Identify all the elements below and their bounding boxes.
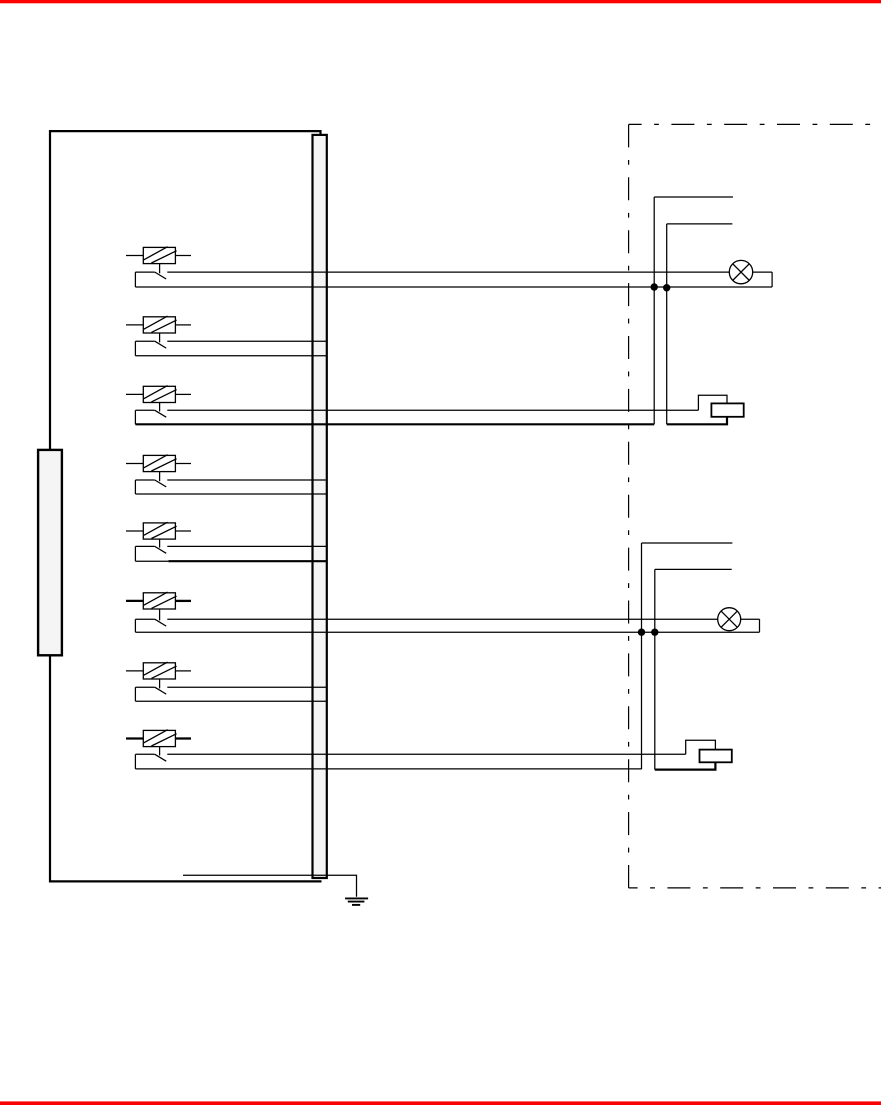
group2 supply stub lower [655, 568, 732, 570]
Q7 actuator link [159, 679, 161, 688]
wire Q1 return (lower) [135, 286, 772, 288]
output driver Q2 right lead [175, 324, 191, 326]
wire solenoid K1 feed (staircase) [698, 395, 727, 410]
backplane bus connector [313, 135, 327, 878]
output driver Q4 right lead [175, 463, 191, 465]
Q1 contact feed drop [134, 272, 136, 287]
output driver Q7 left lead [126, 670, 143, 672]
output driver Q5 (hatched box) [143, 523, 175, 539]
lamp load E2 [718, 608, 741, 631]
wire Q7 output (upper) [167, 686, 326, 688]
wire Q8 return (lower) [135, 768, 641, 770]
output driver Q5 right lead [175, 530, 191, 532]
wire Q3 return (lower, bold) [135, 423, 654, 425]
load enclosure dash-dot border bottom [629, 887, 881, 889]
digital output module enclosure [50, 131, 322, 881]
wire solenoid K2 return [655, 762, 716, 769]
wire Q7 return (lower) [135, 700, 326, 702]
wire Q1 output (upper) [167, 271, 729, 273]
output driver Q8 right lead [175, 737, 191, 739]
load enclosure dash-dot border top [629, 123, 881, 125]
wire solenoid K1 return [667, 417, 727, 425]
Q7 output contact [135, 686, 154, 688]
red footer rule [0, 1101, 881, 1105]
Q6 contact feed drop [134, 619, 136, 632]
Q2 output contact [135, 340, 154, 342]
Q5 output contact [135, 545, 154, 547]
wire Q5 output (upper) [167, 545, 326, 547]
Q6 output contact [135, 618, 154, 620]
wire lamp E2 return loop [741, 618, 760, 620]
ground wire [183, 875, 357, 897]
output driver Q3 (hatched box) [143, 386, 175, 402]
group2 supply riser L+ (node) [641, 543, 643, 769]
output driver Q6 left lead [126, 600, 143, 602]
output driver Q6 (hatched box) [143, 593, 175, 609]
Q8 output contact [135, 753, 154, 755]
Q7 contact feed drop [134, 687, 136, 701]
wire lamp E1 return loop [753, 271, 772, 273]
wire Q6 return (lower) [135, 631, 759, 633]
Q2 actuator link [159, 333, 161, 342]
load enclosure dash-dot border left [628, 124, 630, 888]
output driver Q4 (hatched box) [143, 455, 175, 471]
output driver Q3 right lead [175, 393, 191, 395]
Q4 contact feed drop [134, 480, 136, 494]
output driver Q8 (hatched box) [143, 730, 175, 746]
Q5 actuator link [159, 539, 161, 548]
lamp load E1 [729, 260, 752, 283]
Q3 contact feed drop [134, 410, 136, 424]
Q5 contact feed drop [134, 546, 136, 561]
junction dot group1 a [651, 283, 658, 290]
wire Q6 output (upper) [167, 618, 717, 620]
group2 supply stub upper [642, 542, 733, 544]
output driver Q2 (hatched box) [143, 317, 175, 333]
junction dot group2 a [638, 629, 645, 636]
output driver Q3 left lead [126, 393, 143, 395]
output driver Q1 (hatched box) [143, 247, 175, 263]
junction dot group2 b [651, 629, 658, 636]
Q6 actuator link [159, 609, 161, 620]
group1 return riser M (node) [666, 224, 668, 424]
output driver Q1 right lead [175, 255, 191, 257]
output driver Q8 left lead [126, 737, 143, 739]
solenoid valve connector K1 [711, 403, 743, 416]
output driver Q7 (hatched box) [143, 663, 175, 679]
junction dot group1 b [663, 284, 670, 291]
group2 return riser M (node) [654, 569, 656, 769]
front connector X1 [38, 450, 62, 655]
wire Q8 output (upper) [167, 753, 685, 755]
output driver Q1 left lead [126, 255, 143, 257]
group1 supply stub lower [667, 223, 733, 225]
wire solenoid K2 feed (staircase) [686, 740, 716, 754]
Q4 output contact [135, 479, 154, 481]
wire Q2 return (lower) [135, 355, 326, 357]
Q8 contact feed drop [134, 754, 136, 769]
output driver Q4 left lead [126, 463, 143, 465]
wire Q4 output (upper) [167, 479, 326, 481]
group1 supply stub upper [654, 196, 733, 198]
Q1 output contact [135, 271, 154, 273]
Q8 actuator link [159, 747, 161, 756]
output driver Q5 left lead [126, 530, 143, 532]
output driver Q6 right lead [175, 600, 191, 602]
Q2 contact feed drop [134, 341, 136, 356]
output driver Q7 right lead [175, 670, 191, 672]
output driver Q2 left lead [126, 324, 143, 326]
solenoid valve connector K2 [700, 750, 732, 763]
Q3 actuator link [159, 403, 161, 412]
wire Q3 output (upper) [167, 409, 698, 411]
ground symbol [345, 897, 368, 899]
red header bar [0, 0, 881, 3]
group1 supply riser L+ (node) [653, 197, 655, 424]
Q3 output contact [135, 409, 154, 411]
wire Q2 output (upper) [167, 340, 326, 342]
wire Q4 return (lower) [135, 493, 326, 495]
wire Q5 return (lower) [135, 560, 168, 562]
Q1 actuator link [159, 264, 161, 274]
Q4 actuator link [159, 472, 161, 482]
